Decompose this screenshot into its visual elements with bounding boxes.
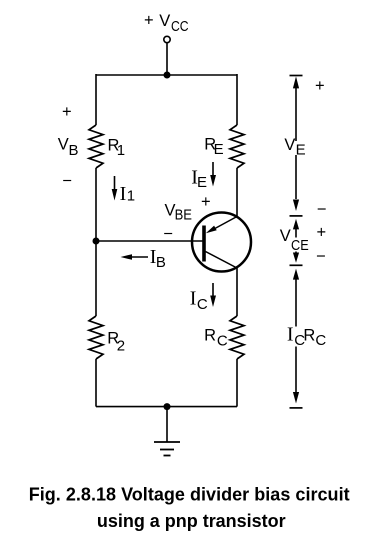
- svg-text:B: B: [156, 254, 166, 271]
- wire right to emitter: [236, 168, 238, 217]
- measurement arrow VE: [290, 76, 303, 212]
- svg-text:C: C: [315, 332, 326, 349]
- label VE: [284, 136, 305, 158]
- svg-text:−: −: [316, 248, 326, 266]
- label IC: [190, 288, 208, 313]
- svg-text:2: 2: [117, 338, 125, 355]
- wire right upper: [236, 74, 238, 125]
- svg-text:V: V: [159, 12, 170, 30]
- svg-text:+: +: [144, 12, 154, 30]
- terminal VCC: [164, 36, 170, 42]
- svg-text:V: V: [58, 136, 69, 154]
- label R1: [108, 137, 126, 159]
- label IB: [150, 246, 166, 271]
- wire right lower: [236, 359, 238, 407]
- label RE: [204, 135, 223, 158]
- junction ground node: [164, 403, 171, 410]
- label I1: [120, 183, 136, 205]
- svg-text:CC: CC: [171, 18, 189, 35]
- wire bottom rail: [96, 406, 237, 408]
- svg-text:1: 1: [117, 142, 125, 159]
- svg-text:R: R: [204, 326, 216, 344]
- svg-text:V: V: [280, 227, 291, 245]
- svg-text:using a pnp transistor: using a pnp transistor: [97, 511, 286, 531]
- resistor R2: [89, 316, 103, 359]
- transistor Q1 pnp: [192, 213, 251, 272]
- ground: [154, 407, 180, 456]
- label RC: [204, 326, 228, 349]
- svg-text:+: +: [315, 77, 325, 95]
- svg-text:E: E: [296, 141, 306, 158]
- svg-text:R: R: [303, 326, 315, 344]
- svg-text:E: E: [214, 141, 224, 158]
- wire base: [96, 240, 203, 242]
- wire left lower: [95, 359, 97, 407]
- label VBE: [165, 201, 193, 223]
- label R2: [107, 329, 125, 354]
- label VCE: [280, 227, 311, 254]
- svg-text:C: C: [217, 333, 228, 350]
- current arrow IB: [121, 254, 149, 260]
- svg-text:1: 1: [127, 188, 135, 205]
- svg-text:C: C: [197, 296, 208, 313]
- label ICRC: [287, 323, 327, 349]
- svg-text:B: B: [69, 142, 79, 159]
- svg-text:I: I: [120, 183, 127, 205]
- svg-text:−: −: [163, 225, 173, 243]
- resistor R1: [89, 125, 103, 168]
- svg-text:CE: CE: [291, 237, 309, 254]
- svg-text:−: −: [62, 172, 72, 190]
- wire VCC stem: [166, 43, 168, 75]
- resistor RC: [230, 316, 244, 359]
- wire left upper: [95, 74, 97, 125]
- svg-text:I: I: [190, 288, 197, 310]
- current arrow IE: [210, 162, 216, 187]
- current arrow IC: [210, 283, 216, 307]
- svg-text:+: +: [62, 103, 72, 121]
- junction node B: [93, 238, 100, 245]
- current arrow I1: [112, 176, 118, 201]
- label VB: [58, 136, 79, 160]
- wire collector: [236, 267, 238, 316]
- svg-text:V: V: [284, 136, 295, 154]
- label IE: [191, 166, 207, 191]
- svg-text:I: I: [287, 323, 294, 345]
- measurement arrow VCE: [290, 216, 303, 263]
- measurement arrow ICRC: [290, 265, 303, 408]
- wire left middle: [95, 168, 97, 316]
- svg-text:Fig. 2.8.18 Voltage divider bi: Fig. 2.8.18 Voltage divider bias circuit: [29, 485, 350, 505]
- svg-text:+: +: [201, 193, 211, 211]
- svg-text:E: E: [197, 174, 207, 191]
- wire top rail: [96, 74, 237, 76]
- resistor RE: [230, 125, 244, 168]
- svg-text:−: −: [317, 201, 327, 219]
- svg-text:+: +: [317, 224, 327, 242]
- junction top node: [164, 72, 171, 79]
- svg-text:BE: BE: [175, 207, 192, 224]
